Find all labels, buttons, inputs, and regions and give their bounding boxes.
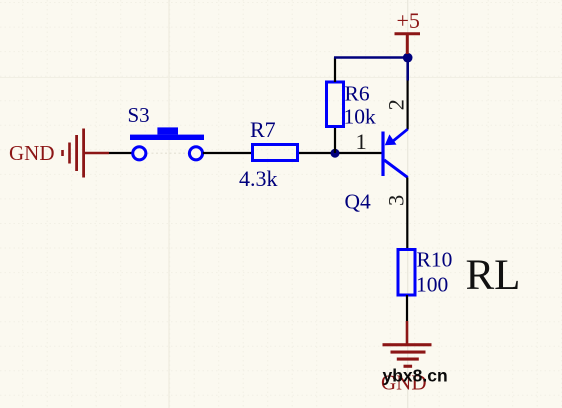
wire: collector down to R10 (406, 177, 408, 248)
ground symbol (bottom) (383, 343, 432, 368)
wire: R6 top up (334, 58, 336, 83)
wire: ground to switch (red part) (84, 152, 109, 154)
svg-text:1: 1 (356, 129, 367, 154)
svg-text:GND: GND (9, 141, 55, 165)
wire: R10 to ground (black part) (406, 295, 408, 321)
+5 power symbol (395, 34, 421, 54)
emitter arrowhead (385, 134, 397, 145)
wire: ground to switch (black part) (109, 152, 133, 154)
svg-text:S3: S3 (128, 103, 150, 127)
wire: top horizontal (navy) (334, 56, 408, 59)
svg-text:100: 100 (416, 273, 448, 297)
wire: switch to R7 (203, 152, 251, 154)
base bar (381, 132, 384, 177)
junction node at +5 (403, 53, 413, 63)
svg-text:2: 2 (383, 99, 408, 110)
wire: navy to emitter (black) (407, 81, 409, 130)
transistor Q4 (381, 129, 407, 177)
emitter line (390, 129, 408, 143)
wire: R7 to transistor base (299, 152, 383, 154)
svg-text:3: 3 (383, 195, 408, 206)
switch S3 (130, 127, 204, 159)
wire: below +5 node (navy) (406, 58, 409, 81)
svg-text:ybx8.cn: ybx8.cn (383, 366, 448, 386)
collector line (384, 160, 407, 177)
svg-text:10k: 10k (344, 105, 377, 129)
resistor R7 (253, 145, 298, 161)
svg-text:R7: R7 (250, 117, 276, 142)
svg-text:R6: R6 (345, 82, 370, 106)
svg-text:4.3k: 4.3k (239, 166, 278, 191)
resistor R10 (398, 250, 415, 296)
junction node (331, 149, 340, 158)
svg-text:Q4: Q4 (345, 190, 372, 214)
ground symbol (left, sideways bars) (61, 129, 85, 178)
wire: R10 to ground (red part) (406, 321, 409, 344)
wire: junction up to R6 (334, 128, 336, 153)
svg-text:R10: R10 (417, 247, 453, 271)
svg-text:+5: +5 (397, 8, 420, 33)
resistor R6 (327, 82, 344, 127)
svg-text:RL: RL (466, 252, 521, 299)
